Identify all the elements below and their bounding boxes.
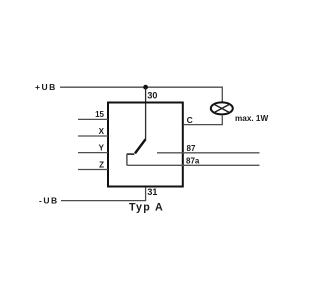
wire +UB supply rail xyxy=(60,87,222,101)
wire terminal 30 into relay xyxy=(145,87,147,139)
svg-text:15: 15 xyxy=(95,110,104,119)
wire terminal C to lamp xyxy=(184,116,223,125)
relay box U1 xyxy=(108,103,183,187)
wire terminal 87a xyxy=(127,164,260,166)
terminal X wire xyxy=(78,135,108,137)
lamp L1 body xyxy=(211,102,233,114)
svg-text:C: C xyxy=(187,115,193,125)
wire terminal 31 to -UB xyxy=(61,188,146,201)
wire terminal 87 xyxy=(157,152,260,154)
svg-text:max. 1W: max. 1W xyxy=(235,114,268,123)
svg-text:-UB: -UB xyxy=(39,196,59,206)
wire pad to 87a xyxy=(126,154,128,165)
svg-text:X: X xyxy=(99,127,105,136)
svg-text:+UB: +UB xyxy=(35,82,57,92)
svg-text:Z: Z xyxy=(99,160,104,169)
svg-text:31: 31 xyxy=(147,187,157,197)
svg-text:87a: 87a xyxy=(186,157,200,166)
lamp L1 cross xyxy=(214,104,230,112)
svg-text:87: 87 xyxy=(187,144,196,153)
switch contact pad xyxy=(127,153,135,155)
terminal Y wire xyxy=(78,152,108,154)
terminal Z wire xyxy=(78,169,108,171)
svg-text:Typ A: Typ A xyxy=(129,202,164,214)
svg-text:Y: Y xyxy=(99,143,105,152)
switch lever S1 xyxy=(135,139,146,153)
terminal 15 wire xyxy=(78,118,108,120)
svg-text:30: 30 xyxy=(147,90,157,100)
junction node 30 xyxy=(143,85,148,90)
